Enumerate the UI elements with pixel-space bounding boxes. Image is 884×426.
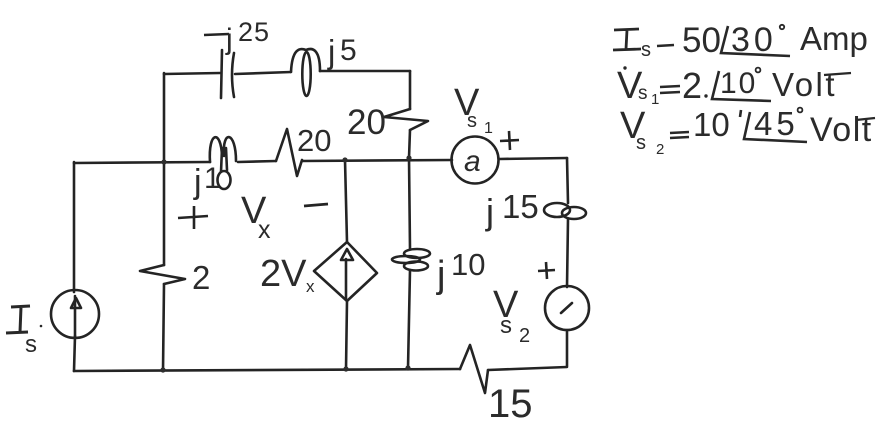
svg-text:j: j bbox=[193, 163, 202, 201]
svg-text:2: 2 bbox=[519, 325, 530, 347]
resistor R-20 right vertical zigzag bbox=[384, 109, 428, 130]
inductor L1 j5 loop bbox=[291, 49, 320, 72]
svg-text:s: s bbox=[500, 312, 512, 339]
label + (Vs1 polarity) bbox=[500, 131, 519, 150]
inductor L4 j15 coil bbox=[544, 203, 570, 217]
resistor R-2 zigzag bbox=[140, 265, 185, 284]
wire middle horizontal a bbox=[238, 161, 276, 162]
svg-text:15: 15 bbox=[488, 382, 533, 426]
node dot middle right junction bbox=[406, 155, 411, 160]
equation line 1: Is = 50 L30 Amp bbox=[613, 29, 641, 50]
svg-text:50: 50 bbox=[682, 21, 721, 60]
svg-text:x: x bbox=[258, 216, 271, 244]
wire bottom horizontal right bbox=[488, 367, 567, 370]
dependent source 2Vx diamond bbox=[314, 242, 377, 301]
wire middle horizontal b bbox=[302, 160, 452, 161]
svg-text:s: s bbox=[467, 110, 477, 132]
resistor R-15 bottom zigzag bbox=[460, 345, 488, 393]
svg-text:5: 5 bbox=[340, 34, 357, 67]
voltage source Vs1 circle bbox=[452, 137, 499, 184]
svg-text:s: s bbox=[636, 132, 646, 154]
wire second vertical upper bbox=[163, 162, 166, 265]
svg-text:45: 45 bbox=[754, 105, 799, 142]
label -j25 bbox=[204, 34, 229, 35]
svg-text:2V: 2V bbox=[260, 253, 307, 295]
current source Is circle bbox=[51, 290, 99, 338]
dependent source arrow bbox=[345, 259, 348, 299]
wire right-mid vertical upper bbox=[409, 158, 410, 249]
inductor L3 j10 right coil bbox=[404, 249, 430, 258]
svg-text:25: 25 bbox=[238, 17, 270, 47]
svg-text:x: x bbox=[306, 277, 315, 296]
wire top-right vertical upper stub bbox=[409, 71, 412, 109]
svg-text:s: s bbox=[638, 83, 648, 104]
svg-text:j: j bbox=[225, 23, 233, 56]
label + (Vs2 polarity) bbox=[538, 262, 555, 279]
wire top-right vertical lower stub bbox=[409, 130, 410, 158]
capacitor C1 -j25 plates bbox=[221, 50, 234, 98]
svg-text:2: 2 bbox=[192, 259, 210, 296]
svg-text:Volt: Volt bbox=[810, 111, 873, 149]
svg-text:10: 10 bbox=[720, 67, 757, 100]
svg-text:a: a bbox=[464, 145, 481, 178]
wire far-right vertical lower bbox=[566, 330, 569, 366]
wire bottom horizontal left bbox=[74, 369, 460, 371]
svg-text:s: s bbox=[641, 39, 651, 61]
node dot bottom diamond junction bbox=[343, 366, 348, 371]
svg-text:10: 10 bbox=[693, 106, 730, 143]
svg-text:20: 20 bbox=[347, 103, 386, 142]
wire far-right vertical mid bbox=[567, 219, 568, 287]
node dot middle-left junction bbox=[161, 159, 166, 164]
svg-text:j: j bbox=[485, 191, 494, 232]
label minus (Vx polarity) bbox=[304, 204, 328, 206]
wire left vertical upper bbox=[73, 162, 76, 292]
label Is (source) bbox=[6, 306, 30, 333]
svg-text:j: j bbox=[327, 33, 335, 70]
wire right-mid vertical lower bbox=[408, 270, 410, 368]
wire second vertical lower bbox=[163, 284, 164, 371]
wire top horizontal left segment bbox=[164, 73, 220, 74]
voltage source Vs2 circle bbox=[545, 286, 589, 330]
svg-text:j: j bbox=[436, 254, 445, 296]
svg-text:1: 1 bbox=[484, 120, 493, 137]
wire middle horizontal left bbox=[74, 162, 210, 163]
wire far-right vertical upper bbox=[567, 158, 568, 203]
wire top horizontal mid segment bbox=[235, 72, 291, 74]
svg-text:30: 30 bbox=[731, 21, 777, 59]
node dot middle diamond junction bbox=[342, 157, 347, 162]
svg-text:20: 20 bbox=[297, 123, 331, 158]
svg-text:10: 10 bbox=[451, 247, 485, 282]
node dot bottom right junction bbox=[405, 365, 410, 370]
svg-text:1: 1 bbox=[204, 162, 221, 195]
svg-text:15: 15 bbox=[502, 188, 539, 225]
svg-text:1: 1 bbox=[651, 91, 659, 108]
label + (Vx polarity) bbox=[178, 206, 208, 229]
node dot bottom second junction bbox=[160, 367, 165, 372]
wire middle horizontal c (Vs1 to corner) bbox=[499, 158, 567, 159]
current source Is arrow bbox=[74, 296, 77, 338]
svg-text:Amp: Amp bbox=[800, 20, 868, 57]
wire diamond vertical lower bbox=[346, 301, 347, 369]
wire top-left vertical bbox=[163, 73, 166, 162]
wire top horizontal right segment bbox=[320, 70, 410, 73]
wire diamond vertical upper bbox=[345, 160, 347, 242]
wire left vertical lower bbox=[74, 336, 75, 371]
svg-text:Volt: Volt bbox=[772, 66, 837, 103]
svg-text:2: 2 bbox=[656, 141, 664, 158]
svg-text:s: s bbox=[25, 331, 37, 358]
equations text block bbox=[613, 20, 875, 158]
svg-text:2: 2 bbox=[682, 65, 702, 106]
resistor R-20 middle zigzag bbox=[276, 129, 302, 176]
inductor L2 j10 middle coil bbox=[210, 137, 236, 162]
